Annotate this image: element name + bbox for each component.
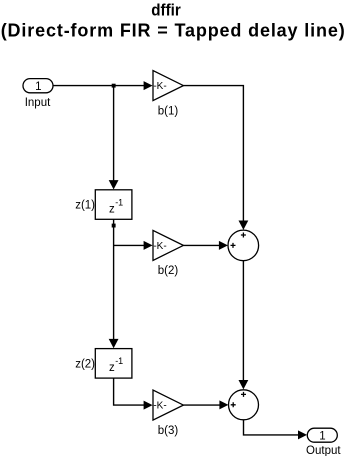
svg-text:Input: Input bbox=[25, 97, 51, 109]
wire sum2 to output bbox=[244, 420, 299, 435]
junction node on input wire bbox=[112, 84, 116, 88]
svg-text:-K-: -K- bbox=[153, 401, 166, 412]
delay block z(1) bbox=[95, 190, 132, 220]
wire b(2) to sum1 bbox=[183, 244, 219, 246]
wire junction down to z(1) bbox=[113, 86, 115, 182]
svg-text:z: z bbox=[109, 203, 115, 215]
wire z(2) to gain b(3) bbox=[114, 378, 145, 405]
svg-text:b(2): b(2) bbox=[158, 265, 179, 277]
arrowhead into sum1 left bbox=[219, 241, 228, 250]
arrowhead into b(2) bbox=[144, 241, 153, 250]
gain b(3) triangle bbox=[153, 390, 183, 420]
gain b(2) triangle bbox=[153, 230, 183, 260]
svg-text:-1: -1 bbox=[115, 356, 123, 366]
wire sum1 to sum2 bbox=[242, 261, 244, 382]
arrowhead into z(1) bbox=[109, 180, 119, 189]
inport block 1 (Input) bbox=[23, 79, 53, 93]
arrowhead into sum2 top bbox=[239, 380, 249, 389]
junction node below z(1) bbox=[112, 224, 116, 228]
wire z(1) down to z(2) bbox=[113, 219, 115, 340]
sum2 plus left bbox=[231, 402, 236, 407]
arrowhead into sum2 left bbox=[219, 400, 228, 409]
arrowhead into b(3) bbox=[144, 401, 153, 410]
wire b(3) to sum2 bbox=[183, 404, 220, 406]
svg-text:dffir: dffir bbox=[151, 0, 181, 19]
svg-text:-K-: -K- bbox=[153, 81, 166, 92]
svg-text:b(3): b(3) bbox=[158, 425, 179, 437]
wire input to gain b(1) bbox=[53, 85, 145, 87]
sum block 1 bbox=[228, 230, 259, 261]
svg-text:1: 1 bbox=[319, 430, 325, 442]
arrowhead into b(1) bbox=[144, 81, 153, 90]
sum1 plus top bbox=[241, 233, 246, 238]
outport block 1 (Output) bbox=[307, 428, 337, 442]
arrowhead into z(2) bbox=[109, 339, 119, 348]
svg-text:z(2): z(2) bbox=[75, 359, 95, 371]
gain b(1) triangle bbox=[153, 71, 183, 101]
svg-text:z: z bbox=[109, 362, 115, 374]
svg-text:Output: Output bbox=[306, 445, 341, 456]
svg-text:-K-: -K- bbox=[153, 241, 166, 252]
wire b(1) to sum1 bbox=[183, 86, 243, 222]
arrowhead into sum1 top bbox=[239, 221, 249, 230]
sum block 2 bbox=[229, 390, 259, 420]
arrowhead into output bbox=[298, 430, 307, 439]
delay block z(2) bbox=[95, 349, 132, 379]
svg-text:z(1): z(1) bbox=[75, 200, 95, 212]
sum2 plus top bbox=[241, 392, 246, 397]
svg-text:1: 1 bbox=[35, 81, 41, 93]
svg-text:-1: -1 bbox=[115, 197, 123, 207]
svg-text:(Direct-form FIR = Tapped dela: (Direct-form FIR = Tapped delay line) bbox=[1, 20, 345, 40]
wire branch to gain b(2) bbox=[114, 244, 145, 246]
sum1 plus left bbox=[231, 243, 236, 248]
svg-text:b(1): b(1) bbox=[158, 105, 179, 117]
